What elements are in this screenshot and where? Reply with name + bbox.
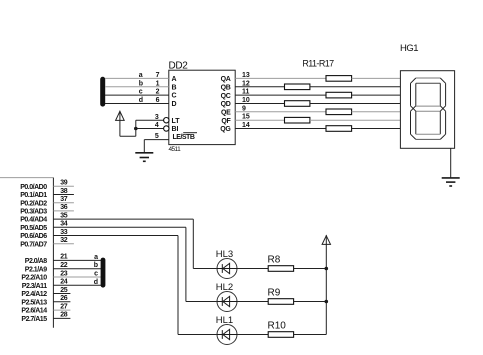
svg-text:R9: R9 (268, 288, 281, 299)
svg-text:P0.7/AD7: P0.7/AD7 (20, 241, 47, 248)
svg-text:R10: R10 (268, 321, 287, 332)
svg-text:R11-R17: R11-R17 (302, 59, 334, 69)
svg-text:P0.2/AD2: P0.2/AD2 (20, 200, 47, 207)
svg-text:d: d (94, 279, 98, 286)
wire P0.6 (pin 33) down to HL1 (178, 236, 217, 335)
wire DD1 pin 27 (P2.6/A14) (53, 303, 70, 310)
wire net c to DD2 pin 2 (105, 89, 169, 96)
wire DD1 pin 39 (P0.0/AD0) (53, 180, 74, 187)
resistor R9 (268, 288, 294, 305)
resistor R10 (268, 321, 294, 338)
HG1 segment F (411, 78, 416, 106)
svg-text:P2.1/A9: P2.1/A9 (25, 266, 47, 273)
svg-text:3: 3 (155, 114, 159, 121)
wire resistor R15 to display HG1 (352, 111, 401, 113)
svg-text:4: 4 (155, 122, 159, 129)
wire DD1 pin 23 (P2.2/A10) (53, 270, 101, 277)
wire pin 4 BI (136, 122, 164, 129)
svg-text:HL1: HL1 (216, 315, 233, 326)
svg-text:1: 1 (156, 80, 160, 87)
wire HL2 to R9 (237, 301, 268, 303)
wire DD2 pin 14 to resistor R17 (235, 122, 326, 129)
wire DD2 pin 10 to resistor R14 (235, 97, 284, 104)
svg-text:c: c (139, 89, 143, 96)
wire resistor R14 to display HG1 (310, 103, 401, 105)
svg-text:35: 35 (60, 212, 67, 219)
svg-text:32: 32 (60, 237, 67, 244)
wire pin 3 LT (136, 114, 164, 121)
svg-text:HG1: HG1 (400, 43, 418, 54)
bus bar (nets a-d at DD1 P2) (101, 258, 106, 288)
svg-text:QE: QE (221, 110, 231, 117)
wire R9 to VCC rail (294, 301, 327, 303)
DD2 LE/STB label with overline (173, 133, 198, 141)
svg-text:HL2: HL2 (216, 282, 233, 293)
wire R10 to VCC rail (294, 334, 327, 336)
svg-text:QD: QD (221, 101, 231, 108)
svg-text:14: 14 (242, 122, 250, 129)
svg-text:c: c (94, 271, 98, 278)
wire DD1 pin 22 (P2.1/A9) (53, 262, 101, 269)
wire DD2 pin 11 to resistor R13 (235, 89, 326, 96)
svg-text:28: 28 (60, 312, 67, 319)
svg-text:4511: 4511 (169, 146, 182, 153)
HG1 segment E (411, 111, 416, 139)
wire DD1 pin 21 (P2.0/A8) (53, 254, 101, 261)
svg-text:P0.1/AD1: P0.1/AD1 (20, 192, 47, 199)
svg-text:26: 26 (60, 295, 67, 302)
decoder DD2 box (169, 70, 235, 144)
wire pin 5 LE/STB to ground (144, 133, 169, 152)
ground symbol (DD2 pin 5) (135, 153, 153, 162)
HG1 segment B (440, 78, 445, 106)
svg-text:P0.3/AD3: P0.3/AD3 (20, 209, 47, 216)
wire DD1 pin 26 (P2.5/A13) (53, 295, 70, 302)
svg-text:6: 6 (156, 97, 160, 104)
svg-text:R8: R8 (268, 255, 281, 266)
svg-text:A: A (172, 76, 177, 83)
wire DD1 pin 28 (P2.7/A15) (53, 312, 70, 319)
svg-text:7: 7 (156, 72, 160, 79)
svg-text:QA: QA (221, 76, 231, 83)
svg-text:P0.0/AD0: P0.0/AD0 (20, 184, 47, 191)
svg-text:23: 23 (60, 270, 67, 277)
wire net a to DD2 pin 7 (105, 72, 169, 79)
wire resistor R16 to display HG1 (310, 119, 401, 121)
wire DD2 pin 9 to resistor R15 (235, 105, 326, 112)
svg-text:22: 22 (60, 262, 67, 269)
resistor R15 (326, 109, 352, 115)
svg-text:P2.2/A10: P2.2/A10 (21, 275, 47, 282)
microcontroller DD1 box (partial) (0, 178, 53, 328)
wire resistor R17 to display HG1 (352, 128, 401, 130)
svg-text:13: 13 (242, 72, 250, 79)
svg-text:b: b (139, 80, 143, 87)
wire P0.4 (pin 35) down to HL3 (193, 219, 217, 268)
wire DD1 pin 32 (P0.7/AD7) (53, 237, 74, 244)
svg-text:d: d (139, 97, 143, 104)
inversion bubble BI pin (164, 126, 169, 131)
svg-text:HL3: HL3 (216, 249, 233, 260)
svg-text:P2.4/A12: P2.4/A12 (21, 291, 47, 298)
ground symbol (HG1) (442, 178, 460, 186)
svg-text:QG: QG (220, 126, 231, 133)
svg-text:25: 25 (60, 287, 67, 294)
HG1 segment C (440, 111, 445, 139)
junction dot R8/rail (325, 267, 329, 271)
wire HL3 to R8 (237, 268, 268, 270)
wire R8 to VCC rail (294, 268, 327, 270)
svg-text:B: B (172, 84, 177, 91)
svg-text:P2.0/A8: P2.0/A8 (25, 258, 47, 265)
wire DD2 pin 13 to resistor R11 (235, 72, 326, 79)
wire P0.5 (pin 34) down to HL2 (186, 227, 217, 301)
wire net d to DD2 pin 6 (105, 97, 169, 104)
svg-text:P0.4/AD4: P0.4/AD4 (20, 217, 47, 224)
HG1 segment D (416, 134, 441, 139)
wire DD1 pin 36 (P0.3/AD3) (53, 204, 74, 211)
svg-text:QB: QB (221, 85, 231, 92)
wire DD1 pin 35 (P0.4/AD4) (53, 212, 193, 219)
svg-text:P2.5/A13: P2.5/A13 (21, 299, 47, 306)
power VCC arrow symbol (to LT/BI) (116, 111, 125, 121)
svg-text:D: D (172, 101, 177, 108)
junction dot LT/BI (134, 127, 138, 131)
power VCC arrow symbol (LED rail) (322, 235, 330, 244)
wire resistor R11 to display HG1 (352, 77, 401, 79)
HG1 segment A (416, 78, 441, 83)
wire DD2 pin 12 to resistor R12 (235, 80, 284, 87)
resistor R11 (326, 76, 352, 82)
resistor R17 (326, 126, 352, 132)
svg-text:10: 10 (242, 97, 250, 104)
svg-text:33: 33 (60, 229, 67, 236)
svg-text:LT: LT (172, 118, 181, 125)
resistor R8 (268, 255, 294, 272)
resistor R14 (285, 101, 310, 107)
svg-text:27: 27 (60, 303, 67, 310)
junction dot R9/rail (325, 300, 329, 304)
svg-text:QC: QC (221, 93, 231, 100)
svg-text:DD2: DD2 (169, 60, 189, 71)
resistor R13 (326, 92, 352, 98)
svg-text:11: 11 (242, 89, 250, 96)
wire DD1 pin 38 (P0.1/AD1) (53, 188, 74, 195)
wire VCC rail vertical (325, 244, 327, 334)
svg-text:a: a (94, 254, 98, 261)
svg-text:34: 34 (60, 221, 67, 228)
svg-text:9: 9 (242, 105, 246, 112)
svg-text:12: 12 (242, 80, 250, 87)
svg-text:15: 15 (242, 114, 250, 121)
bus bar (nets a-d at DD2 inputs) (100, 77, 105, 107)
svg-text:P2.3/A11: P2.3/A11 (22, 283, 47, 290)
wire power to LT/BI (120, 120, 136, 136)
svg-text:C: C (172, 93, 177, 100)
wire DD1 pin 34 (P0.5/AD5) (53, 221, 186, 228)
svg-text:37: 37 (60, 196, 67, 203)
svg-text:39: 39 (60, 180, 67, 187)
wire resistor R12 to display HG1 (310, 86, 401, 88)
wire DD1 pin 37 (P0.2/AD2) (53, 196, 74, 203)
svg-text:5: 5 (155, 133, 159, 140)
svg-text:b: b (94, 262, 98, 269)
svg-text:a: a (139, 72, 143, 79)
svg-text:P0.5/AD5: P0.5/AD5 (20, 225, 47, 232)
resistor R12 (285, 84, 310, 90)
svg-text:2: 2 (156, 89, 160, 96)
svg-text:P0.6/AD6: P0.6/AD6 (20, 233, 47, 240)
svg-text:LE/STB: LE/STB (173, 134, 195, 141)
LED HL2 (216, 282, 237, 312)
svg-text:P2.7/A15: P2.7/A15 (21, 316, 47, 323)
wire HL1 to R10 (237, 334, 268, 336)
wire HG1 to ground (450, 148, 452, 177)
svg-text:BI: BI (172, 126, 179, 133)
wire DD1 pin 24 (P2.3/A11) (53, 279, 101, 286)
HG1 segment G (411, 106, 446, 111)
LED HL1 (216, 315, 237, 345)
LED HL3 (216, 249, 237, 279)
svg-text:24: 24 (60, 279, 67, 286)
svg-text:38: 38 (60, 188, 67, 195)
wire DD1 pin 25 (P2.4/A12) (53, 287, 70, 294)
wire DD2 pin 15 to resistor R16 (235, 114, 284, 121)
svg-text:36: 36 (60, 204, 67, 211)
display HG1 body box (400, 71, 454, 149)
wire DD1 pin 33 (P0.6/AD6) (53, 229, 178, 236)
svg-text:QF: QF (221, 118, 231, 125)
svg-text:21: 21 (60, 254, 67, 261)
svg-text:P2.6/A14: P2.6/A14 (21, 308, 47, 315)
resistor R16 (285, 117, 310, 123)
wire net b to DD2 pin 1 (105, 80, 169, 87)
wire resistor R13 to display HG1 (352, 94, 401, 96)
inversion bubble LT pin (164, 118, 169, 123)
